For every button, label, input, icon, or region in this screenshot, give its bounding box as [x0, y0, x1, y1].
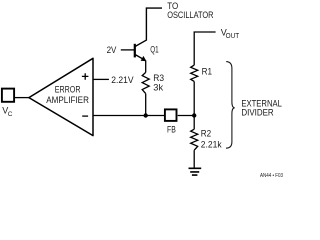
svg-text:2.21V: 2.21V: [111, 75, 133, 85]
svg-text:OSCILLATOR: OSCILLATOR: [167, 10, 214, 20]
svg-text:R1: R1: [202, 67, 212, 77]
wire FB to divider node: [178, 115, 195, 117]
wire Q1 collector to oscillator: [146, 8, 162, 41]
junction dot at divider node: [192, 113, 196, 117]
wire noninverting input to 2.21V reference: [93, 78, 109, 80]
transistor Q1 emitter diagonal: [135, 55, 143, 60]
transistor Q1 base bar: [134, 44, 136, 58]
svg-text:FB: FB: [167, 125, 176, 135]
wire VOUT to R1: [194, 32, 215, 65]
transistor Q1 emitter arrowhead: [141, 56, 147, 61]
wire R2 to ground: [193, 150, 195, 168]
svg-text:AMPLIFIER: AMPLIFIER: [46, 95, 89, 105]
pin box VC: [2, 89, 14, 102]
svg-text:2V: 2V: [107, 45, 117, 55]
junction dot at R3 / inverting input node: [144, 113, 148, 117]
resistor R1: [191, 65, 198, 81]
wire Q1 emitter to R3: [145, 61, 147, 73]
wire R1 to R2: [193, 81, 195, 129]
svg-text:R2: R2: [201, 129, 211, 139]
svg-text:DIVIDER: DIVIDER: [241, 108, 274, 118]
op-amp noninverting input + sign: [82, 73, 89, 80]
svg-text:AN44 • F03: AN44 • F03: [260, 173, 283, 178]
resistor R2: [191, 129, 198, 150]
svg-text:3k: 3k: [153, 82, 163, 92]
transistor Q1 collector diagonal: [135, 40, 146, 46]
svg-text:2.21k: 2.21k: [201, 140, 222, 150]
resistor R3: [142, 72, 149, 93]
wire inverting input to FB box: [93, 115, 165, 117]
wire VC to op-amp output: [15, 97, 30, 99]
svg-text:C: C: [8, 111, 13, 118]
svg-text:ERROR: ERROR: [55, 85, 81, 95]
op-amp inverting input - sign: [82, 115, 88, 117]
brace external divider: [226, 62, 235, 149]
ground: [189, 168, 202, 175]
wire R3 to inverting node: [145, 94, 147, 116]
wire 2V to Q1 base: [121, 49, 135, 51]
pin box FB: [165, 109, 177, 121]
svg-text:Q1: Q1: [150, 44, 158, 54]
svg-text:OUT: OUT: [226, 33, 240, 40]
op-amp U1 error amplifier: [29, 58, 93, 135]
